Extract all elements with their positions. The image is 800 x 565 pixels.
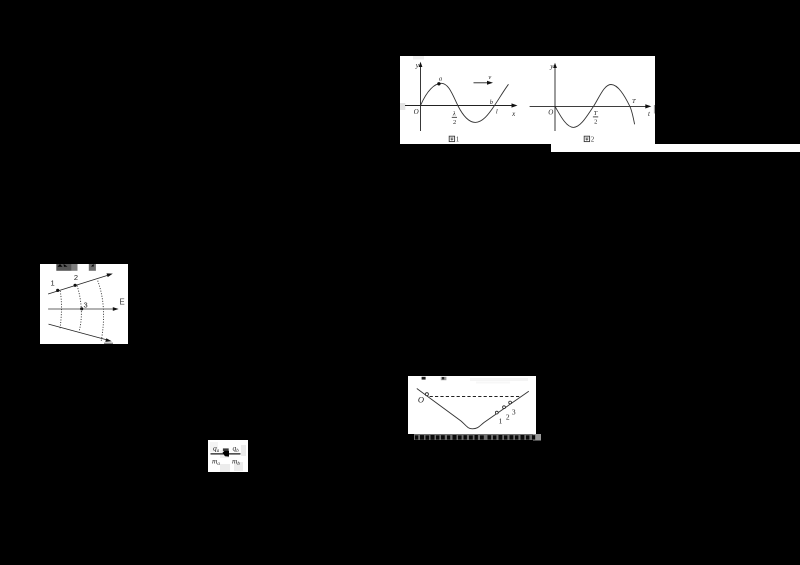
svg-text:O: O <box>418 395 424 405</box>
svg-text:1: 1 <box>499 417 503 426</box>
ball 1 <box>495 411 498 414</box>
field line top <box>48 273 113 294</box>
svg-text:3: 3 <box>84 301 88 310</box>
svg-text:t: t <box>648 110 651 118</box>
masked caption block right <box>89 264 96 271</box>
field line bottom <box>49 324 112 342</box>
svg-text:2: 2 <box>506 412 510 421</box>
equipotential arc 1 (dashed) <box>60 291 62 330</box>
ink blob (corrupted equals sign) <box>223 448 230 456</box>
T/2 label fig2 <box>593 110 598 125</box>
svg-text:qa: qa <box>213 444 220 455</box>
faint artifact top-left of box <box>413 56 424 60</box>
svg-text:T: T <box>594 110 598 117</box>
caption 图1 <box>449 136 460 144</box>
equipotential arc 3 (dashed) <box>98 281 104 342</box>
x-axis fig1 <box>405 103 518 107</box>
ball 3 <box>509 401 512 404</box>
svg-text:1: 1 <box>456 136 460 144</box>
masked caption block left-2 <box>72 264 78 271</box>
lambda/2 label fig1 <box>452 111 457 127</box>
svg-text:b: b <box>490 99 494 106</box>
svg-text:l: l <box>496 109 498 116</box>
svg-text:ma: ma <box>212 457 220 468</box>
t-axis fig2 <box>530 104 652 108</box>
formula box D (q/m fractions) <box>208 440 248 472</box>
grey tick at box right edge <box>653 105 655 114</box>
wave curve fig1 <box>421 83 509 122</box>
svg-text:1: 1 <box>51 278 55 287</box>
svg-text:2: 2 <box>74 273 78 282</box>
svg-text:a: a <box>439 76 442 83</box>
wave curve fig2 <box>555 85 635 128</box>
grey sliver bottom <box>104 343 113 344</box>
svg-text:λ: λ <box>452 111 456 118</box>
figure box C (valley with balls) <box>408 376 536 434</box>
charge dot 2 <box>74 284 77 287</box>
dashed height line <box>430 396 520 398</box>
caption band below box C <box>414 434 541 441</box>
ball 2 <box>503 406 506 409</box>
fraction bar <box>211 453 241 455</box>
equipotential arc 2 (dashed) <box>77 286 81 331</box>
svg-text:x: x <box>511 110 516 118</box>
svg-text:2: 2 <box>591 136 595 144</box>
figure box B (electric field lines with equipotentials) <box>40 264 128 344</box>
masked caption block left <box>56 264 72 271</box>
svg-text:mb: mb <box>232 457 240 468</box>
charge dot 1 <box>56 289 59 292</box>
y-axis fig1 <box>419 62 423 131</box>
ball at O <box>425 393 428 396</box>
field line middle (E axis) <box>48 307 119 311</box>
masked mark dark <box>422 377 426 380</box>
caption glyph blobs <box>415 435 535 440</box>
white strip below figure box A <box>551 144 800 152</box>
svg-text:y: y <box>415 62 420 70</box>
charge dot 3 <box>80 307 83 310</box>
svg-text:O: O <box>548 109 553 117</box>
faint smudge top <box>470 378 528 384</box>
y-axis fig2 <box>553 63 557 131</box>
svg-text:2: 2 <box>453 119 456 126</box>
svg-text:T: T <box>632 98 636 105</box>
particle a dot fig1 <box>437 82 440 85</box>
svg-text:2: 2 <box>594 118 597 125</box>
svg-text:y: y <box>549 63 554 71</box>
masked mark grey <box>441 377 447 380</box>
caption 图2 <box>584 136 595 144</box>
svg-text:v: v <box>488 74 491 81</box>
figure box A (图1 and 图2 wave graphs) <box>400 56 655 144</box>
svg-text:qb: qb <box>233 444 240 455</box>
valley slope profile <box>417 389 529 429</box>
velocity arrow fig1 <box>474 81 494 85</box>
svg-text:O: O <box>414 108 419 116</box>
faint patches <box>210 442 246 472</box>
svg-text:3: 3 <box>512 408 516 417</box>
svg-text:E: E <box>119 298 124 307</box>
faint artifact left of fig1 x-axis <box>400 103 405 110</box>
